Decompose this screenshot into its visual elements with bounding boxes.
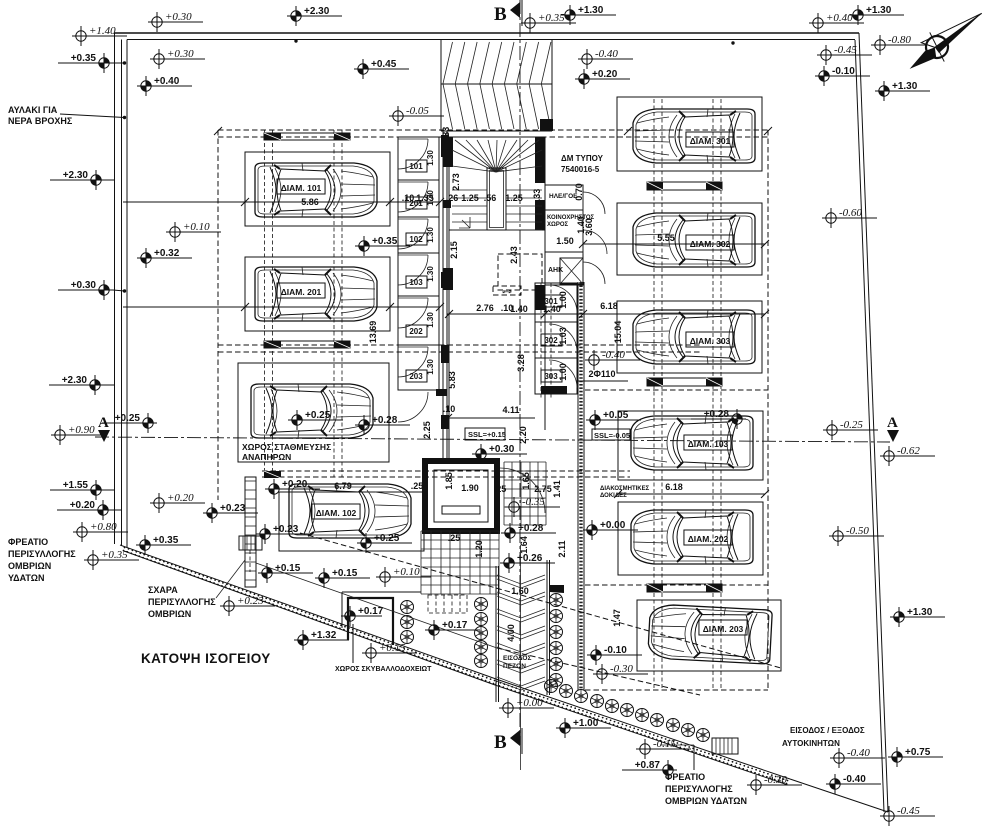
svg-text:B: B <box>494 732 507 753</box>
svg-text:+0.35: +0.35 <box>372 236 398 247</box>
svg-text:+0.90: +0.90 <box>68 424 95 436</box>
svg-text:4.00: 4.00 <box>506 624 516 642</box>
property boundary bottom diagonal with dotted hatch band <box>120 545 496 679</box>
elevation marker +0.23 <box>256 524 311 544</box>
storage label 201 <box>406 197 427 209</box>
dashed stall divider lines left column <box>264 130 266 477</box>
storage label 102 <box>406 233 427 245</box>
svg-text:ΔΙΑΜ. 103: ΔΙΑΜ. 103 <box>688 439 729 449</box>
car ΔΙΑΜ.103 <box>631 416 753 470</box>
svg-text:+1.30: +1.30 <box>578 5 604 16</box>
svg-text:202: 202 <box>409 327 423 336</box>
elevation marker +0.45 <box>354 59 409 79</box>
elevation marker +1.00 <box>556 718 611 738</box>
svg-text:+0.80: +0.80 <box>90 521 117 533</box>
storage rooms right column 301-303 <box>535 283 577 394</box>
svg-text:+0.10: +0.10 <box>393 566 420 578</box>
stair arrow <box>459 217 470 228</box>
svg-text:1.85: 1.85 <box>444 472 454 490</box>
elevation marker +0.32 <box>137 248 192 268</box>
elevation marker +0.75 <box>888 747 943 767</box>
elevation marker +1.55 <box>50 480 105 500</box>
elevation marker +0.15 <box>258 563 313 583</box>
svg-text:5.55: 5.55 <box>657 233 675 243</box>
elevation marker +2.30 <box>50 170 105 190</box>
svg-text:ΑΗΚ: ΑΗΚ <box>548 267 563 274</box>
svg-text:6.79: 6.79 <box>334 481 352 491</box>
elevator shaft thick walls <box>425 461 497 531</box>
dimension tick marks <box>214 127 772 498</box>
elevation marker +0.35 <box>136 535 191 555</box>
elevation marker +0.17 <box>425 620 480 640</box>
svg-text:+0.17: +0.17 <box>442 620 468 631</box>
stair central void <box>487 168 506 230</box>
elevation marker +0.23 <box>220 595 275 616</box>
stair core thick wall pieces <box>443 137 453 167</box>
svg-text:-0.10: -0.10 <box>832 66 855 77</box>
svg-text:ΠΕΖΩΝ: ΠΕΖΩΝ <box>503 663 526 670</box>
svg-text:+0.20: +0.20 <box>282 479 308 490</box>
elevation marker +0.23 <box>203 503 258 523</box>
svg-text:1.20: 1.20 <box>474 540 484 558</box>
marker-to-boundary extension lines <box>113 62 125 64</box>
svg-text:-0.60: -0.60 <box>839 207 862 219</box>
svg-text:ΧΩΡΟΣ: ΧΩΡΟΣ <box>547 222 568 228</box>
parking stall ΔΙΑΜ.203 rect <box>637 600 781 671</box>
svg-text:+0.00: +0.00 <box>600 520 626 531</box>
svg-text:2Φ110: 2Φ110 <box>589 369 616 379</box>
svg-text:ΦΡΕΑΤΙΟ: ΦΡΕΑΤΙΟ <box>665 772 705 782</box>
svg-text:ΔΙΑΜ. 201: ΔΙΑΜ. 201 <box>281 287 322 297</box>
svg-text:ΔΙΑΜ. 303: ΔΙΑΜ. 303 <box>690 336 731 346</box>
svg-text:1.40: 1.40 <box>576 216 586 234</box>
property boundary left triple line <box>114 33 116 544</box>
svg-text:+1.32: +1.32 <box>311 630 337 641</box>
svg-text:-0.05: -0.05 <box>406 105 429 117</box>
svg-text:102: 102 <box>409 235 423 244</box>
svg-text:+0.05: +0.05 <box>603 410 629 421</box>
svg-text:-0.15: -0.15 <box>653 738 676 750</box>
dot hatch on bottom boundary band <box>123 547 789 785</box>
car ΔΙΑΜ.203 <box>648 604 773 664</box>
svg-text:1.30: 1.30 <box>426 359 435 375</box>
svg-text:1.64: 1.64 <box>519 536 529 554</box>
storage label 203 <box>406 370 427 382</box>
svg-text:+0.35: +0.35 <box>101 549 128 561</box>
garbage bollards column <box>401 601 414 614</box>
svg-text:ΔΙΑΜ. 203: ΔΙΑΜ. 203 <box>703 624 744 634</box>
svg-text:6.18: 6.18 <box>600 301 618 311</box>
svg-text:1.00: 1.00 <box>558 291 568 309</box>
storage label 302 <box>541 334 562 346</box>
car ΔΙΑΜ.201 <box>255 267 377 321</box>
svg-text:+0.32: +0.32 <box>154 248 180 259</box>
elevation marker +0.30 <box>472 444 527 464</box>
svg-text:ΟΜΒΡΙΩΝ: ΟΜΒΡΙΩΝ <box>148 609 191 619</box>
dashed bay lines through right storage <box>540 283 542 398</box>
svg-text:+0.10: +0.10 <box>183 221 210 233</box>
elevation marker -0.10 <box>587 645 642 665</box>
elevation marker -0.25 <box>823 419 878 440</box>
svg-text:2.25: 2.25 <box>422 421 432 439</box>
black wedge right of stair top <box>550 585 564 593</box>
svg-text:-0.62: -0.62 <box>897 445 920 457</box>
svg-text:13.69: 13.69 <box>368 321 378 344</box>
elevation marker +0.26 <box>500 553 555 573</box>
elevation marker +0.35 <box>355 236 410 256</box>
svg-text:+1.30: +1.30 <box>907 607 933 618</box>
svg-text:ΠΕΡΙΣΥΛΛΟΓΗΣ: ΠΕΡΙΣΥΛΛΟΓΗΣ <box>665 784 733 794</box>
svg-text:+0.40: +0.40 <box>154 76 180 87</box>
small dashed box <box>493 286 521 295</box>
leader to frear bottom <box>693 745 695 770</box>
parking stall ΔΙΑΜ.103 rect <box>618 411 763 480</box>
svg-text:ΧΩΡΟΣ ΣΤΑΘΜΕΥΣΗΣ: ΧΩΡΟΣ ΣΤΑΘΜΕΥΣΗΣ <box>242 442 331 452</box>
SSL=-0.05 box <box>592 429 630 440</box>
elevation marker -0.45 <box>817 44 872 65</box>
svg-text:SSL=+0.15: SSL=+0.15 <box>468 430 506 439</box>
label ΔΙΑΜ. 201 <box>277 283 325 298</box>
svg-text:+0.35: +0.35 <box>153 535 179 546</box>
svg-text:+1.30: +1.30 <box>892 81 918 92</box>
dashed box right of garbage <box>428 595 467 613</box>
elevation marker -0.40 <box>826 774 881 794</box>
svg-text:+0.20: +0.20 <box>167 492 194 504</box>
svg-text:0.70: 0.70 <box>574 183 584 201</box>
car ΔΙΑΜ.301 <box>633 109 755 163</box>
svg-text:⌀=⌀: ⌀=⌀ <box>503 289 512 295</box>
svg-text:-0.45: -0.45 <box>834 44 857 56</box>
elevation marker +2.30 <box>49 375 104 395</box>
elevation marker +1.30 <box>875 81 930 101</box>
dashed canopy lines above 102 <box>262 470 630 472</box>
svg-text:.25: .25 <box>494 484 507 494</box>
grate leader line <box>216 560 245 598</box>
storage label 101 <box>406 160 427 172</box>
svg-text:.10: .10 <box>443 404 456 414</box>
pilaster near 102 <box>264 471 281 478</box>
svg-text:+0.28: +0.28 <box>518 523 544 534</box>
elevation marker -0.15 <box>636 738 691 759</box>
svg-text:+0.23: +0.23 <box>220 503 246 514</box>
storage label 303 <box>541 370 562 382</box>
elevation marker +0.20 <box>265 479 320 499</box>
elevation marker +0.15 <box>362 642 417 663</box>
elevation marker +0.00 <box>499 697 554 718</box>
svg-text:-0.80: -0.80 <box>888 34 911 46</box>
storage label 301 <box>541 295 562 307</box>
svg-text:+0.15: +0.15 <box>275 563 301 574</box>
storage rooms left column <box>398 137 439 422</box>
svg-text:1.40: 1.40 <box>510 304 528 314</box>
svg-text:ΣΧΑΡΑ: ΣΧΑΡΑ <box>148 585 178 595</box>
parking stall ΔΙΑΜ.101 rect <box>245 152 390 226</box>
svg-text:+0.30: +0.30 <box>165 11 192 23</box>
svg-text:2.75: 2.75 <box>534 484 552 494</box>
label ΔΙΑΜ. 303 <box>686 332 734 347</box>
stair treads left flight <box>452 190 542 230</box>
svg-text:5.83: 5.83 <box>447 371 457 389</box>
storage label 202 <box>406 325 427 337</box>
svg-text:ΝΕΡΑ ΒΡΟΧΗΣ: ΝΕΡΑ ΒΡΟΧΗΣ <box>8 116 73 126</box>
svg-text:ΔΙΑΚΟΣΜΗΤΙΚΕΣ: ΔΙΑΚΟΣΜΗΤΙΚΕΣ <box>600 486 650 492</box>
svg-text:1.30: 1.30 <box>426 227 435 243</box>
elevation marker -0.62 <box>880 445 935 466</box>
dashed line mid parking <box>218 344 700 346</box>
svg-text:+0.35: +0.35 <box>71 53 97 64</box>
elevation marker +1.30 <box>890 607 945 627</box>
svg-text:1.30: 1.30 <box>426 312 435 328</box>
svg-text:2.76: 2.76 <box>476 303 494 313</box>
svg-text:1.25: 1.25 <box>461 193 479 203</box>
svg-text:1.25: 1.25 <box>505 193 523 203</box>
svg-text:+0.28: +0.28 <box>704 409 730 420</box>
svg-text:-0.30: -0.30 <box>610 663 633 675</box>
svg-text:3.28: 3.28 <box>516 354 526 372</box>
elevation marker +0.30 <box>150 48 205 69</box>
property boundary right slanted double line <box>859 33 888 812</box>
svg-text:1.60: 1.60 <box>511 586 529 596</box>
label ΔΙΑΜ. 102 <box>312 504 360 519</box>
svg-text:1.65: 1.65 <box>521 472 531 490</box>
car ΔΙΑΜ.102 <box>289 484 411 538</box>
label ΔΙΑΜ. 302 <box>686 235 734 250</box>
svg-text:ΔΜ ΤΥΠΟΥ: ΔΜ ΤΥΠΟΥ <box>561 154 604 163</box>
parking area dashed outline <box>218 129 768 131</box>
garbage leader line <box>352 624 354 663</box>
stair core walls <box>449 137 545 230</box>
svg-text:1.90: 1.90 <box>461 483 479 493</box>
elevation marker +1.30 <box>849 5 904 25</box>
svg-text:203: 203 <box>409 372 423 381</box>
elevation marker -0.45 <box>880 805 935 826</box>
utility rooms walls HLE/GOE KOINOXRHSTOS AHK <box>545 185 583 285</box>
left bollard column <box>475 598 488 611</box>
svg-text:SSL=-0.05: SSL=-0.05 <box>594 431 630 440</box>
svg-text:+0.15: +0.15 <box>379 642 406 654</box>
svg-text:ΔΙΑΜ. 102: ΔΙΑΜ. 102 <box>316 508 357 518</box>
svg-text:103: 103 <box>409 278 423 287</box>
car disabled stall <box>251 384 373 438</box>
elevation marker +0.35 <box>58 53 113 73</box>
svg-text:ΟΜΒΡΙΩΝ ΥΔΑΤΩΝ: ΟΜΒΡΙΩΝ ΥΔΑΤΩΝ <box>665 796 747 806</box>
svg-text:+1.55: +1.55 <box>63 480 89 491</box>
svg-text:1.00: 1.00 <box>558 363 568 381</box>
svg-text:+0.17: +0.17 <box>358 606 384 617</box>
elevation marker +1.32 <box>294 630 349 650</box>
black block top of ramp side <box>540 119 553 131</box>
svg-text:101: 101 <box>409 162 423 171</box>
elevation marker +0.05 <box>586 410 641 430</box>
svg-text:+0.35: +0.35 <box>538 12 565 24</box>
garbage enclosure walls <box>342 591 421 593</box>
svg-text:1.41: 1.41 <box>552 480 562 498</box>
svg-text:2.43: 2.43 <box>509 246 519 264</box>
svg-text:1.50: 1.50 <box>556 236 574 246</box>
label ΔΙΑΜ. 101 <box>277 179 325 194</box>
svg-text:ΑΝΑΠΗΡΩΝ: ΑΝΑΠΗΡΩΝ <box>242 452 291 462</box>
elevation marker -0.40 <box>578 48 633 69</box>
svg-text:+0.26: +0.26 <box>517 553 543 564</box>
car ΔΙΑΜ.302 <box>633 213 755 267</box>
elevation marker +1.40 <box>72 25 127 46</box>
elevation marker +0.90 <box>51 424 106 445</box>
parking stall disabled rect <box>238 363 389 462</box>
svg-text:+0.30: +0.30 <box>71 280 97 291</box>
pedestrian stair chevron treads <box>497 575 545 690</box>
elevation marker -0.10 <box>815 66 870 86</box>
svg-text:+0.28: +0.28 <box>372 415 398 426</box>
svg-text:ΑΥΛΑΚΙ ΓΙΑ: ΑΥΛΑΚΙ ΓΙΑ <box>8 105 58 115</box>
svg-text:+2.30: +2.30 <box>304 6 330 17</box>
column bar assemblies parking left <box>264 133 350 140</box>
svg-text:1.03: 1.03 <box>558 327 568 345</box>
car ΔΙΑΜ.303 <box>633 310 755 364</box>
stair winder radiating lines <box>452 140 542 172</box>
elevation marker -0.35 <box>505 496 560 517</box>
svg-text:B: B <box>494 4 507 25</box>
elevation marker +0.28 <box>691 409 746 429</box>
label ΔΙΑΜ. 103 <box>684 435 732 450</box>
elevation marker -0.80 <box>871 34 926 55</box>
svg-text:-0.45: -0.45 <box>897 805 920 817</box>
elevation marker +0.40 <box>809 12 864 33</box>
parking stall ΔΙΑΜ.303 rect <box>617 301 762 373</box>
svg-text:.33: .33 <box>532 189 542 202</box>
svg-text:ΚΑΤΟΨΗ ΙΣΟΓΕΙΟΥ: ΚΑΤΟΨΗ ΙΣΟΓΕΙΟΥ <box>141 651 271 666</box>
svg-text:+1.00: +1.00 <box>573 718 599 729</box>
svg-text:+0.75: +0.75 <box>905 747 931 758</box>
svg-text:.10: .10 <box>402 193 415 203</box>
svg-text:+0.30: +0.30 <box>489 444 515 455</box>
svg-text:+0.23: +0.23 <box>273 524 299 535</box>
north compass arrow <box>899 1 982 81</box>
svg-text:+1.40: +1.40 <box>89 25 116 37</box>
lower core walls <box>448 230 450 310</box>
svg-text:-0.10: -0.10 <box>604 645 627 656</box>
section line B-B vertical dash-dot <box>519 0 521 745</box>
svg-text:1.47: 1.47 <box>612 609 622 627</box>
label ΔΙΑΜ. 202 <box>684 530 732 545</box>
parking stall ΔΙΑΜ.302 rect <box>617 203 762 275</box>
svg-text:ΟΜΒΡΙΩΝ: ΟΜΒΡΙΩΝ <box>8 561 51 571</box>
right storage bottom black bar <box>541 386 567 394</box>
storage wall right with blobs <box>442 131 444 460</box>
elevation marker +0.10 <box>166 221 221 242</box>
section line A-A horizontal dash-dot <box>95 437 890 442</box>
svg-text:+0.25: +0.25 <box>115 413 141 424</box>
svg-text:ΠΕΡΙΣΥΛΛΟΓΗΣ: ΠΕΡΙΣΥΛΛΟΓΗΣ <box>8 549 76 559</box>
elevation marker -0.30 <box>593 663 648 684</box>
svg-text:2.20: 2.20 <box>518 426 528 444</box>
SSL=+0.15 box <box>465 428 505 440</box>
svg-text:-0.40: -0.40 <box>843 774 866 785</box>
svg-text:ΠΕΡΙΣΥΛΛΟΓΗΣ: ΠΕΡΙΣΥΛΛΟΓΗΣ <box>148 597 216 607</box>
drain grate ladder <box>245 477 256 587</box>
svg-text:+0.15: +0.15 <box>332 568 358 579</box>
parking stall ΔΙΑΜ.201 rect <box>245 257 390 331</box>
elevation marker -0.40 <box>830 747 885 768</box>
column bar assemblies right parking <box>647 182 722 190</box>
vehicle ramp walls <box>440 40 442 131</box>
stair center line <box>520 545 522 770</box>
svg-text:ΧΩΡΟΣ ΣΚΥΒΑΛΛΟΔΟΧΕΙΩΤ: ΧΩΡΟΣ ΣΚΥΒΑΛΛΟΔΟΧΕΙΩΤ <box>335 666 432 673</box>
svg-text:-0.25: -0.25 <box>840 419 863 431</box>
bollard circles column right of stair <box>550 594 563 687</box>
storage label 103 <box>406 276 427 288</box>
parking stall ΔΙΑΜ.301 rect <box>617 97 762 171</box>
svg-text:+0.40: +0.40 <box>826 12 853 24</box>
floor tile grid below elevator <box>421 531 499 594</box>
svg-text:-0.30: -0.30 <box>764 774 787 786</box>
svg-text:+0.20: +0.20 <box>592 69 618 80</box>
dashed diagonal lines across bottom area <box>300 533 781 668</box>
svg-text:ΔΙΑΜ. 202: ΔΙΑΜ. 202 <box>688 534 729 544</box>
svg-text:4.11: 4.11 <box>502 405 519 415</box>
svg-text:2.11: 2.11 <box>557 540 567 557</box>
svg-text:+1.30: +1.30 <box>866 5 892 16</box>
pedestrian entrance stair walls <box>495 566 497 702</box>
frear small box on band <box>712 738 738 754</box>
svg-text:+2.30: +2.30 <box>63 170 89 181</box>
elevation marker -0.40 <box>585 349 640 370</box>
small drain box bottom-left of boundary <box>239 536 262 550</box>
elevation marker +0.20 <box>575 69 630 89</box>
svg-text:-0.40: -0.40 <box>595 48 618 60</box>
parking stall ΔΙΑΜ.202 rect <box>618 502 763 575</box>
svg-text:ΦΡΕΑΤΙΟ: ΦΡΕΑΤΙΟ <box>8 537 48 547</box>
svg-text:A: A <box>887 415 898 431</box>
elevation marker +0.35 <box>521 12 576 33</box>
dash-dot service rect <box>498 254 542 290</box>
elevation marker +0.40 <box>137 76 192 96</box>
elevation marker -0.60 <box>822 207 877 228</box>
elevation marker +0.10 <box>376 566 431 587</box>
svg-text:+0.30: +0.30 <box>167 48 194 60</box>
label ΔΙΑΜ. 203 <box>699 620 747 635</box>
svg-text:+2.30: +2.30 <box>62 375 88 386</box>
svg-text:-0.50: -0.50 <box>846 525 869 537</box>
svg-text:+0.23: +0.23 <box>237 595 264 607</box>
boundary inner parallel line upper <box>256 563 497 648</box>
svg-text:-0.40: -0.40 <box>847 747 870 759</box>
elevation marker +0.17 in garbage area <box>341 606 384 626</box>
car ΔΙΑΜ.202 <box>631 510 753 564</box>
ramp chevron hatch <box>443 42 551 129</box>
elevation marker +1.30 <box>561 5 616 25</box>
svg-text:ΥΔΑΤΩΝ: ΥΔΑΤΩΝ <box>8 573 44 583</box>
row dim line through 101 <box>123 201 440 203</box>
elevation marker +0.25 near 102 <box>357 533 412 553</box>
small black wall chunk corridor <box>436 389 447 396</box>
svg-text:1.35: 1.35 <box>416 193 434 203</box>
svg-text:+0.00: +0.00 <box>516 697 543 709</box>
svg-text:ΔΙΑΜ. 101: ΔΙΑΜ. 101 <box>281 183 322 193</box>
svg-text:ΕΙΣΟΔΟΣ / ΕΞΟΔΟΣ: ΕΙΣΟΔΟΣ / ΕΞΟΔΟΣ <box>790 726 865 735</box>
svg-text:6.18: 6.18 <box>665 482 683 492</box>
svg-text:+0.20: +0.20 <box>70 500 96 511</box>
elevation marker +0.20 <box>57 500 112 520</box>
elevation marker -0.30 <box>747 774 802 795</box>
row dim line through 201 <box>123 306 440 308</box>
elevation marker +0.30 <box>148 11 203 32</box>
elevation marker -0.05 <box>389 105 444 126</box>
property boundary top double line <box>115 32 860 34</box>
elevation marker +0.20 <box>150 492 205 513</box>
elevation marker +0.28 <box>355 415 410 435</box>
svg-text:.25: .25 <box>448 533 461 543</box>
svg-text:-0.40: -0.40 <box>602 349 625 361</box>
